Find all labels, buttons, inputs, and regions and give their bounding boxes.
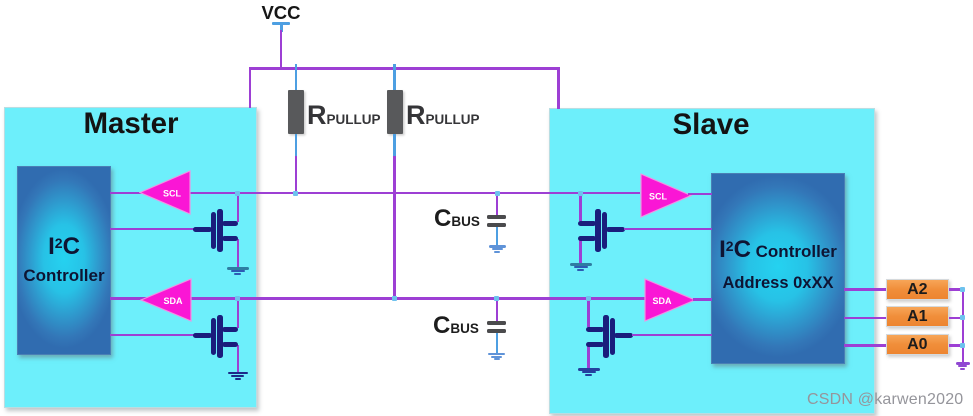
- node A2 junction: [960, 287, 965, 292]
- capacitor CBUS1: [487, 215, 506, 227]
- master box: [4, 107, 257, 408]
- label CBUS1: [434, 205, 480, 233]
- svg-text:SCL: SCL: [163, 189, 182, 199]
- wire A0 left: [844, 344, 887, 347]
- wire Q3 drain: [579, 193, 582, 221]
- ground address pins: [956, 362, 970, 370]
- label Slave: [610, 108, 812, 142]
- power symbol VCC: [272, 22, 290, 34]
- wire CBUS1 bottom lead: [496, 227, 498, 246]
- wire slave SCL gate: [624, 228, 712, 231]
- node A0 junction: [960, 343, 965, 348]
- wire A2 left: [844, 288, 887, 291]
- i2c controller U2 (slave): [711, 173, 845, 364]
- watermark: [807, 391, 963, 409]
- ground Q4: [578, 368, 600, 377]
- svg-text:SCL: SCL: [649, 191, 668, 201]
- label Master: [30, 107, 232, 141]
- wire master SCL gate: [110, 228, 197, 231]
- wire rail right drop to slave: [557, 68, 560, 109]
- node CBUS2 junction: [494, 296, 499, 301]
- wire Q3 source: [579, 239, 582, 264]
- wire CBUS2 bottom lead: [496, 333, 498, 353]
- transistor Q2 (master SDA driver): [193, 315, 238, 358]
- node master SCL drain junction: [235, 191, 240, 196]
- node slave SCL drain junction: [578, 191, 583, 196]
- buffer SCL (slave): [640, 173, 692, 218]
- wire SDA bus: [110, 297, 646, 300]
- wire Q1 source: [237, 239, 240, 268]
- svg-text:SDA: SDA: [163, 296, 183, 306]
- wire R1 top lead: [295, 64, 298, 91]
- wire R1 to SCL bus: [295, 156, 298, 194]
- slave box: [549, 108, 875, 414]
- wire Q4 drain: [587, 298, 590, 327]
- wire R2 top lead: [393, 64, 396, 91]
- label R2 RPULLUP: [406, 100, 480, 131]
- transistor Q4 (slave SDA driver): [586, 315, 633, 358]
- ground CBUS1: [489, 245, 506, 254]
- wire slave SCL tip to controller: [688, 193, 712, 196]
- wire R2 bottom lead: [393, 134, 396, 157]
- wire slave SDA gate: [632, 334, 712, 337]
- wire slave SDA tip to controller: [693, 298, 713, 301]
- wire A1 right: [949, 317, 963, 320]
- wire R1 bottom lead: [295, 134, 298, 157]
- transistor Q1 (master SCL driver): [193, 209, 238, 252]
- node R1 SCL junction: [293, 191, 298, 196]
- wire VCC drop: [280, 30, 283, 69]
- resistor R1: [288, 90, 304, 134]
- pin A1: [886, 306, 949, 327]
- wire CBUS1 stub: [496, 194, 499, 216]
- wire A1 left: [844, 317, 887, 320]
- wire R2 to SDA bus: [393, 156, 396, 299]
- wire address pull vertical: [962, 288, 965, 363]
- pin A0: [886, 334, 949, 355]
- ground Q2: [228, 372, 249, 380]
- wire master SDA gate: [110, 334, 197, 337]
- ground Q3: [570, 263, 592, 272]
- ground Q1: [227, 267, 249, 276]
- capacitor CBUS2: [487, 321, 506, 334]
- wire A2 right: [949, 288, 963, 291]
- node A1 junction: [960, 315, 965, 320]
- node master SDA drain junction: [235, 296, 240, 301]
- node CBUS1 junction: [495, 191, 500, 196]
- wire Q4 source: [587, 345, 590, 369]
- buffer SDA (master): [140, 278, 192, 322]
- i2c controller U1 (master): [17, 166, 111, 355]
- label VCC: [261, 2, 301, 24]
- wire A0 right: [949, 344, 963, 347]
- pin A2: [886, 279, 949, 300]
- wire SCL bus: [110, 192, 640, 195]
- wire Q2 source: [237, 345, 240, 373]
- wire rail left drop to master: [249, 68, 252, 108]
- node R2 SDA junction: [392, 296, 397, 301]
- label R1 RPULLUP: [307, 100, 381, 131]
- node slave SDA drain junction: [586, 296, 591, 301]
- svg-text:SDA: SDA: [652, 296, 672, 306]
- wire Q1 drain: [237, 193, 240, 222]
- buffer SDA (slave): [644, 278, 696, 322]
- ground CBUS2: [488, 353, 505, 362]
- transistor Q3 (slave SCL driver): [578, 209, 625, 252]
- buffer SCL (master): [139, 170, 191, 215]
- label CBUS2: [433, 312, 479, 340]
- wire Q2 drain: [237, 298, 240, 328]
- wire VCC rail: [249, 67, 560, 70]
- resistor R2: [387, 90, 403, 134]
- wire CBUS2 stub: [496, 299, 499, 321]
